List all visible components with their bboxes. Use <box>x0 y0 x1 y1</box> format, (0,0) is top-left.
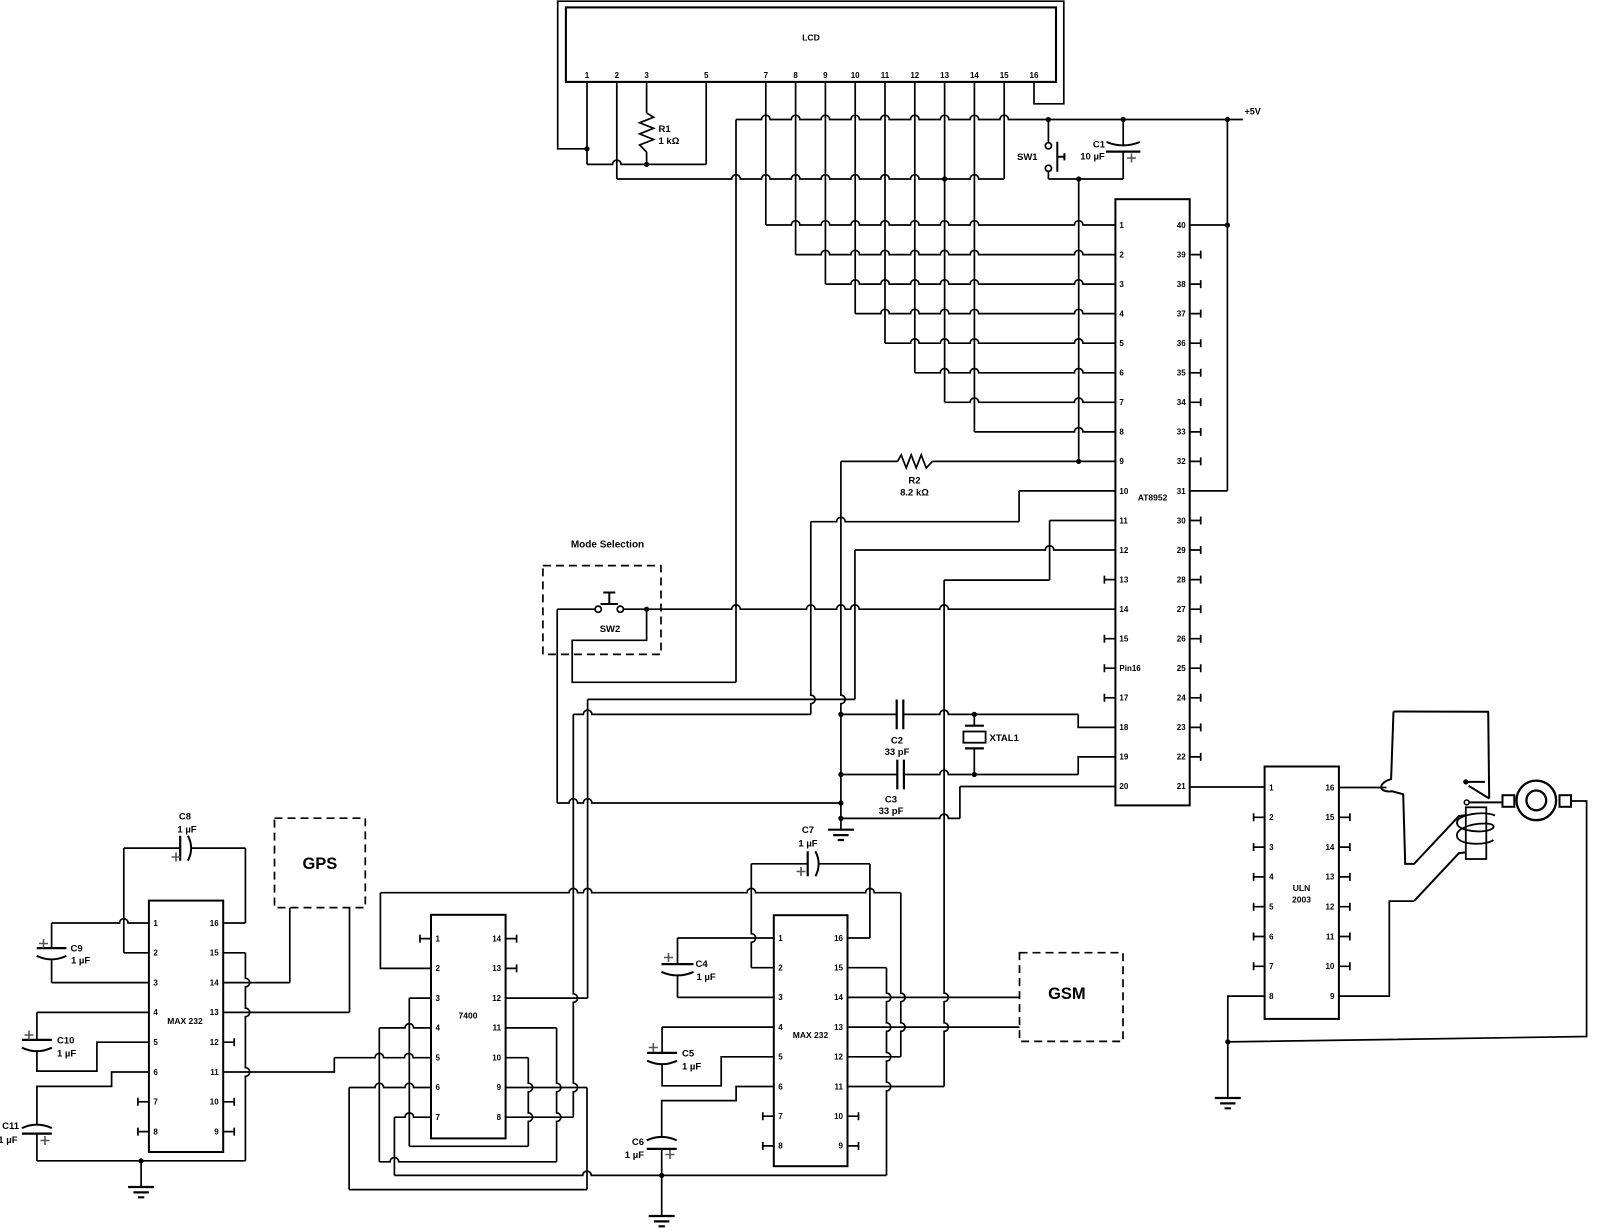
svg-text:39: 39 <box>1177 250 1186 259</box>
wire U1 pin 15 to ground row <box>223 952 245 954</box>
+5V power rail <box>736 115 1243 119</box>
wire C5 bottom to U4 pin 5 <box>662 1057 774 1086</box>
C6 plus sign <box>666 1150 675 1159</box>
capacitor C1 <box>1122 120 1124 147</box>
svg-text:14: 14 <box>970 71 979 80</box>
svg-text:26: 26 <box>1177 635 1186 644</box>
svg-text:GSM: GSM <box>1048 985 1086 1003</box>
wire LCD frame (pin16 to pin1 ground loop) <box>558 1 1064 149</box>
svg-text:3: 3 <box>436 994 441 1003</box>
svg-text:10 µF: 10 µF <box>1080 152 1105 163</box>
svg-text:35: 35 <box>1177 369 1186 378</box>
svg-text:AT8952: AT8952 <box>1138 493 1168 503</box>
wire U1 pin 14 to GPS <box>223 982 290 984</box>
wire U1 pin 13 to GPS <box>223 1011 349 1013</box>
ground row to MAX232 right pin 15 <box>394 1171 886 1175</box>
svg-text:8: 8 <box>153 1127 158 1136</box>
svg-text:C5: C5 <box>682 1049 695 1060</box>
C8 plus sign <box>172 853 181 862</box>
resistor R2 <box>841 460 898 462</box>
wire C3 row to U2 pin 19 <box>1078 757 1115 775</box>
wire U1 pin 11 to 7400 pin 5 <box>223 1058 334 1072</box>
wire U5 pin 9 to relay coil <box>1339 901 1414 996</box>
svg-text:13: 13 <box>210 1008 219 1017</box>
svg-text:32: 32 <box>1177 457 1186 466</box>
capacitor C3 <box>841 774 897 776</box>
junction XTAL bottom <box>972 772 977 777</box>
svg-text:6: 6 <box>1269 932 1274 941</box>
wire SW2 to +5V jog link <box>572 609 736 682</box>
wire U2 pin 12 to 7400 pin 12 net <box>855 546 1116 550</box>
svg-text:4: 4 <box>1119 309 1124 318</box>
wire U2 pin 20 to ground net <box>960 786 1116 788</box>
svg-text:12: 12 <box>492 994 501 1003</box>
svg-text:11: 11 <box>1326 932 1335 941</box>
relay coil lower lead <box>1414 852 1466 901</box>
wire C4 bottom to U4 pin 3 <box>677 975 679 998</box>
switch SW1 (reset) <box>1047 120 1049 143</box>
svg-text:5: 5 <box>1269 903 1274 912</box>
svg-text:8: 8 <box>497 1113 502 1122</box>
svg-text:14: 14 <box>1325 843 1334 852</box>
svg-text:7: 7 <box>436 1113 441 1122</box>
wire U1 pin 4 to C10 <box>37 1011 149 1013</box>
svg-text:10: 10 <box>851 71 860 80</box>
C7 plus sign <box>797 867 806 876</box>
C11 plus sign <box>41 1136 50 1145</box>
svg-text:9: 9 <box>214 1127 219 1136</box>
svg-text:36: 36 <box>1177 339 1186 348</box>
capacitor C2 <box>841 713 897 715</box>
svg-text:SW1: SW1 <box>1017 152 1038 163</box>
junction ground row <box>139 1158 144 1163</box>
svg-text:19: 19 <box>1119 753 1128 762</box>
svg-text:3: 3 <box>153 978 158 987</box>
svg-text:C6: C6 <box>632 1137 644 1148</box>
junction SW2 return <box>838 800 843 805</box>
svg-text:15: 15 <box>834 964 843 973</box>
wire U4 pin 14 to GSM <box>848 996 1020 998</box>
svg-text:16: 16 <box>834 934 843 943</box>
IC U1 MAX 232 box <box>149 901 223 1152</box>
svg-text:23: 23 <box>1177 723 1186 732</box>
svg-text:4: 4 <box>153 1008 158 1017</box>
U1 unused pin stubs <box>138 1098 149 1106</box>
svg-text:6: 6 <box>436 1083 441 1092</box>
svg-text:29: 29 <box>1177 546 1186 555</box>
svg-text:12: 12 <box>210 1038 219 1047</box>
svg-text:2: 2 <box>1119 250 1124 259</box>
svg-text:28: 28 <box>1177 575 1186 584</box>
svg-text:3: 3 <box>1119 280 1124 289</box>
wire U4 pin 4 to C5 <box>662 1026 774 1028</box>
junction rail-SW1 <box>1046 117 1051 122</box>
wire LCD pin 10 to U2 pin 4 <box>854 82 856 314</box>
svg-text:3: 3 <box>778 993 783 1002</box>
wire U4 pin 6 to C6 <box>662 1087 774 1138</box>
wire reset net vertical to U2 pin 9 <box>1078 179 1080 461</box>
junction rail drop to U2 pin40 <box>1225 117 1230 122</box>
junction reset net <box>1076 176 1081 181</box>
svg-text:1 µF: 1 µF <box>71 956 90 967</box>
svg-text:R2: R2 <box>908 476 920 487</box>
wire LCD pin 5 riser <box>705 82 707 164</box>
svg-text:C11: C11 <box>2 1121 20 1132</box>
svg-text:6: 6 <box>778 1082 783 1091</box>
svg-text:8: 8 <box>1119 428 1124 437</box>
svg-text:22: 22 <box>1177 753 1186 762</box>
svg-text:9: 9 <box>1119 457 1124 466</box>
junction C2 left <box>838 712 843 717</box>
wire U5 pin 16 to relay <box>1339 787 1387 789</box>
C4 plus sign <box>664 953 673 962</box>
wire SW2 left to ground net <box>556 609 558 803</box>
junction reset at U2 pin 9 <box>1076 459 1081 464</box>
wire C7 left to U4 pin 2 <box>751 864 755 968</box>
capacitor C10 <box>22 1039 52 1041</box>
svg-text:16: 16 <box>210 919 219 928</box>
Mode Selection box <box>543 566 661 655</box>
wire LCD pin 15 riser <box>1003 82 1005 179</box>
wire +5V to U2 pin 40 and pin 31 <box>1226 120 1228 491</box>
svg-text:2: 2 <box>153 949 158 958</box>
svg-text:3: 3 <box>1269 843 1274 852</box>
svg-text:11: 11 <box>881 71 890 80</box>
svg-text:16: 16 <box>1030 71 1039 80</box>
capacitor C11 <box>22 1125 52 1129</box>
svg-text:ULN: ULN <box>1293 883 1310 893</box>
svg-text:38: 38 <box>1177 280 1186 289</box>
svg-text:13: 13 <box>834 1023 843 1032</box>
svg-text:10: 10 <box>1119 487 1128 496</box>
svg-text:R1: R1 <box>659 124 672 135</box>
svg-text:34: 34 <box>1177 398 1186 407</box>
capacitor C9 <box>37 947 67 949</box>
wire U2 pin 10 to 7400 pin 8 net <box>1019 490 1115 492</box>
svg-text:16: 16 <box>1325 783 1334 792</box>
svg-text:10: 10 <box>834 1112 843 1121</box>
svg-text:1: 1 <box>153 919 158 928</box>
svg-text:1: 1 <box>1119 221 1124 230</box>
wire U3 pin 6 to pin 9 loop <box>349 1083 431 1087</box>
svg-text:33 pF: 33 pF <box>879 806 904 817</box>
svg-text:6: 6 <box>1119 369 1124 378</box>
svg-text:14: 14 <box>834 993 843 1002</box>
wire U2 pin 11 to MAX232 pin 11 (TXD) <box>1050 520 1116 522</box>
svg-text:C1: C1 <box>1093 140 1106 151</box>
svg-text:1 µF: 1 µF <box>697 972 716 983</box>
capacitor C6 <box>647 1137 677 1141</box>
svg-text:SW2: SW2 <box>600 624 621 635</box>
svg-text:5: 5 <box>153 1038 158 1047</box>
svg-text:7: 7 <box>778 1112 783 1121</box>
U4 unused pin stubs <box>763 1112 774 1120</box>
svg-text:18: 18 <box>1119 723 1128 732</box>
svg-text:7: 7 <box>1119 398 1124 407</box>
capacitor C5 <box>647 1052 677 1054</box>
svg-text:21: 21 <box>1177 782 1186 791</box>
svg-text:4: 4 <box>1269 873 1274 882</box>
svg-text:8: 8 <box>778 1142 783 1151</box>
wire C9 bottom to U1 pin 3 <box>51 959 53 983</box>
C1 plus sign <box>1127 154 1136 163</box>
U5 unused pin stubs <box>1254 813 1265 821</box>
wire LCD pin 13 to U2 pin 7 <box>944 82 946 402</box>
relay coil <box>1466 807 1487 859</box>
svg-text:10: 10 <box>210 1098 219 1107</box>
svg-text:9: 9 <box>839 1142 844 1151</box>
svg-text:1 µF: 1 µF <box>682 1062 701 1073</box>
wire vertical to 7400 pin 12 <box>587 699 589 998</box>
svg-text:2: 2 <box>436 964 441 973</box>
junction SW2 right <box>644 607 649 612</box>
IC U5 ULN2003 box <box>1265 767 1339 1019</box>
svg-text:15: 15 <box>210 949 219 958</box>
svg-text:6: 6 <box>153 1068 158 1077</box>
svg-text:2003: 2003 <box>1292 895 1311 905</box>
wire U1 pin 6 to C11 <box>37 1072 149 1125</box>
svg-text:C3: C3 <box>885 795 897 806</box>
wire row LCD pin2 to pin15 <box>617 175 1004 179</box>
svg-text:15: 15 <box>1119 635 1128 644</box>
svg-text:LCD: LCD <box>802 33 820 43</box>
junction XTAL top <box>972 712 977 717</box>
ground below C6 <box>661 1175 663 1216</box>
svg-text:MAX 232: MAX 232 <box>793 1030 829 1040</box>
wire +5V vertical to SW2 link <box>735 120 737 683</box>
svg-text:33 pF: 33 pF <box>885 747 910 758</box>
svg-text:13: 13 <box>940 71 949 80</box>
svg-text:14: 14 <box>492 934 501 943</box>
svg-text:1 µF: 1 µF <box>625 1150 644 1161</box>
svg-text:4: 4 <box>436 1024 441 1033</box>
junction U2 pin40 rail <box>1225 222 1230 227</box>
junction motor return <box>1225 1039 1230 1044</box>
svg-text:C8: C8 <box>179 812 191 823</box>
junction rail-C1 <box>1121 117 1126 122</box>
wire LCD pin 7 to U2 pin 1 <box>765 82 767 225</box>
svg-text:7400: 7400 <box>459 1011 478 1021</box>
svg-text:31: 31 <box>1177 487 1186 496</box>
wire U3 pin 7 to ground row <box>394 1113 431 1117</box>
wire U5 pin 8 to motor return <box>1228 996 1265 1042</box>
wire LCD pin 11 to U2 pin 5 <box>884 82 886 343</box>
wire C2 row to U2 pin 18 <box>1078 714 1115 727</box>
svg-text:13: 13 <box>1119 575 1128 584</box>
svg-text:4: 4 <box>778 1023 783 1032</box>
wire motor to ground return <box>1228 801 1587 1042</box>
wire SW2 left terminal <box>557 608 595 610</box>
svg-text:12: 12 <box>910 71 919 80</box>
svg-text:37: 37 <box>1177 309 1186 318</box>
wire U3 pin 2 to MAX232 right pin 12 net <box>380 893 431 969</box>
wire vertical to 7400 pin 8 <box>573 714 577 1117</box>
ground below ULN <box>1227 1042 1229 1098</box>
svg-text:40: 40 <box>1177 221 1186 230</box>
svg-text:1: 1 <box>1269 783 1274 792</box>
junction C3 left <box>838 772 843 777</box>
svg-text:8.2 kΩ: 8.2 kΩ <box>900 488 929 499</box>
svg-text:Pin16: Pin16 <box>1119 664 1141 673</box>
svg-text:C10: C10 <box>57 1036 74 1047</box>
svg-text:11: 11 <box>493 1024 502 1033</box>
wire R2 ground vertical <box>841 461 845 829</box>
wire row A <box>588 698 855 700</box>
junction C6 ground <box>659 1173 664 1178</box>
svg-text:12: 12 <box>834 1053 843 1062</box>
svg-text:15: 15 <box>1000 71 1009 80</box>
wire ground row under LCD pins 1-5 <box>587 160 706 164</box>
svg-text:5: 5 <box>1119 339 1124 348</box>
switch SW2 <box>595 606 601 612</box>
svg-text:GPS: GPS <box>302 855 337 873</box>
wire C8 right to U1 pin 16 <box>244 848 246 923</box>
svg-text:7: 7 <box>764 71 769 80</box>
svg-text:9: 9 <box>1330 992 1335 1001</box>
wire LCD pin 14 to U2 pin 8 <box>973 82 975 432</box>
svg-text:7: 7 <box>1269 962 1274 971</box>
junction LCD pin13 on row <box>942 176 947 181</box>
svg-text:1: 1 <box>436 934 441 943</box>
svg-text:8: 8 <box>1269 992 1274 1001</box>
svg-text:13: 13 <box>1325 873 1334 882</box>
svg-text:9: 9 <box>497 1083 502 1092</box>
wire C6 bottom to ground row <box>661 1149 663 1176</box>
svg-text:15: 15 <box>1325 813 1334 822</box>
svg-text:8: 8 <box>793 71 798 80</box>
relay contact armature <box>1463 779 1468 784</box>
svg-text:C9: C9 <box>71 944 83 955</box>
relay K1 outline <box>1381 712 1489 864</box>
svg-text:5: 5 <box>704 71 709 80</box>
wire C8 left to U1 pin 2 <box>123 848 125 953</box>
wire U3 pin 4 to pin 11 loop <box>379 1024 431 1028</box>
svg-text:5: 5 <box>436 1054 441 1063</box>
svg-text:17: 17 <box>1119 694 1128 703</box>
svg-text:12: 12 <box>1119 546 1128 555</box>
svg-text:1 kΩ: 1 kΩ <box>659 136 680 147</box>
svg-text:1: 1 <box>585 71 590 80</box>
svg-text:1 µF: 1 µF <box>798 839 817 850</box>
wire U2 pin 21 to ULN2003 pin 1 <box>1190 786 1265 788</box>
U2 unused pin stubs <box>1104 576 1115 584</box>
C9 plus sign <box>39 939 48 948</box>
GSM module box <box>1020 953 1124 1042</box>
wire U3 pin 3 to pin 10 loop <box>409 997 431 999</box>
svg-text:20: 20 <box>1119 782 1128 791</box>
svg-text:1 µF: 1 µF <box>57 1049 76 1060</box>
wire U1 pin 1 to C9 <box>52 919 149 923</box>
svg-text:1: 1 <box>778 934 783 943</box>
svg-text:7: 7 <box>153 1098 158 1107</box>
svg-text:14: 14 <box>1119 605 1128 614</box>
svg-text:C7: C7 <box>802 825 814 836</box>
microcontroller U2 AT8952 box <box>1115 199 1189 805</box>
IC U3 7400 box <box>431 915 506 1139</box>
wire C11 bottom to ground row <box>36 1134 38 1161</box>
junction LCD pin1/frame <box>584 146 589 151</box>
LCD display U6 box <box>566 7 1056 82</box>
svg-text:2: 2 <box>1269 813 1274 822</box>
svg-text:13: 13 <box>492 964 501 973</box>
wire LCD pin 12 to U2 pin 6 <box>914 82 916 373</box>
ground near U1 <box>140 1161 142 1187</box>
motor M1 <box>1517 781 1557 821</box>
ground near C3 <box>828 830 854 840</box>
capacitor C7 <box>751 863 807 865</box>
wire SW1 bottom to C1 bottom <box>1048 178 1123 180</box>
svg-text:3: 3 <box>644 71 649 80</box>
wire LCD pin 9 to U2 pin 3 <box>824 82 826 284</box>
capacitor C4 <box>662 963 694 965</box>
svg-text:1 µF: 1 µF <box>177 825 196 836</box>
svg-text:5: 5 <box>778 1053 783 1062</box>
svg-text:24: 24 <box>1177 694 1186 703</box>
wire LCD pin 8 to U2 pin 2 <box>795 82 797 255</box>
GPS module box <box>275 818 366 907</box>
capacitor C8 <box>124 847 180 849</box>
C10 plus sign <box>25 1031 34 1040</box>
wire U2 pin 14 to SW2 <box>647 605 1116 609</box>
IC U4 MAX 232 box <box>774 915 848 1166</box>
svg-text:14: 14 <box>210 978 219 987</box>
svg-text:MAX 232: MAX 232 <box>167 1016 203 1026</box>
svg-text:11: 11 <box>210 1068 219 1077</box>
svg-text:9: 9 <box>823 71 828 80</box>
wire U4 pin 1 to C4 <box>678 937 774 939</box>
svg-text:1 µF: 1 µF <box>0 1135 18 1146</box>
wire LCD pin 1 down <box>586 82 588 164</box>
svg-text:10: 10 <box>492 1054 501 1063</box>
wire C10 bottom to U1 pin 5 <box>37 1042 149 1071</box>
svg-text:Mode Selection: Mode Selection <box>571 540 644 551</box>
resistor R1 <box>646 82 648 113</box>
svg-text:11: 11 <box>1119 516 1128 525</box>
svg-text:27: 27 <box>1177 605 1186 614</box>
U3 unused pin stubs <box>420 935 431 943</box>
svg-text:+5V: +5V <box>1245 107 1261 117</box>
svg-text:2: 2 <box>778 964 783 973</box>
svg-text:25: 25 <box>1177 664 1186 673</box>
svg-text:XTAL1: XTAL1 <box>990 733 1020 744</box>
C5 plus sign <box>649 1043 658 1052</box>
relay lower contact <box>1464 800 1469 805</box>
svg-text:C2: C2 <box>891 736 903 747</box>
svg-text:30: 30 <box>1177 516 1186 525</box>
wire C7 right to U4 pin 16 <box>869 864 871 938</box>
svg-text:2: 2 <box>615 71 620 80</box>
svg-text:11: 11 <box>835 1082 844 1091</box>
wire U4 pin 13 to GSM <box>848 1026 1020 1028</box>
svg-text:33: 33 <box>1177 428 1186 437</box>
wire LCD pin 2 down <box>616 82 618 179</box>
svg-text:10: 10 <box>1325 962 1334 971</box>
wire row B <box>573 710 811 714</box>
svg-text:C4: C4 <box>696 959 709 970</box>
crystal XTAL1 <box>973 714 975 725</box>
wire relay contact to motor <box>1469 801 1502 803</box>
svg-text:12: 12 <box>1325 903 1334 912</box>
junction R1 bottom <box>644 162 649 167</box>
junction pin20 ground <box>838 816 843 821</box>
